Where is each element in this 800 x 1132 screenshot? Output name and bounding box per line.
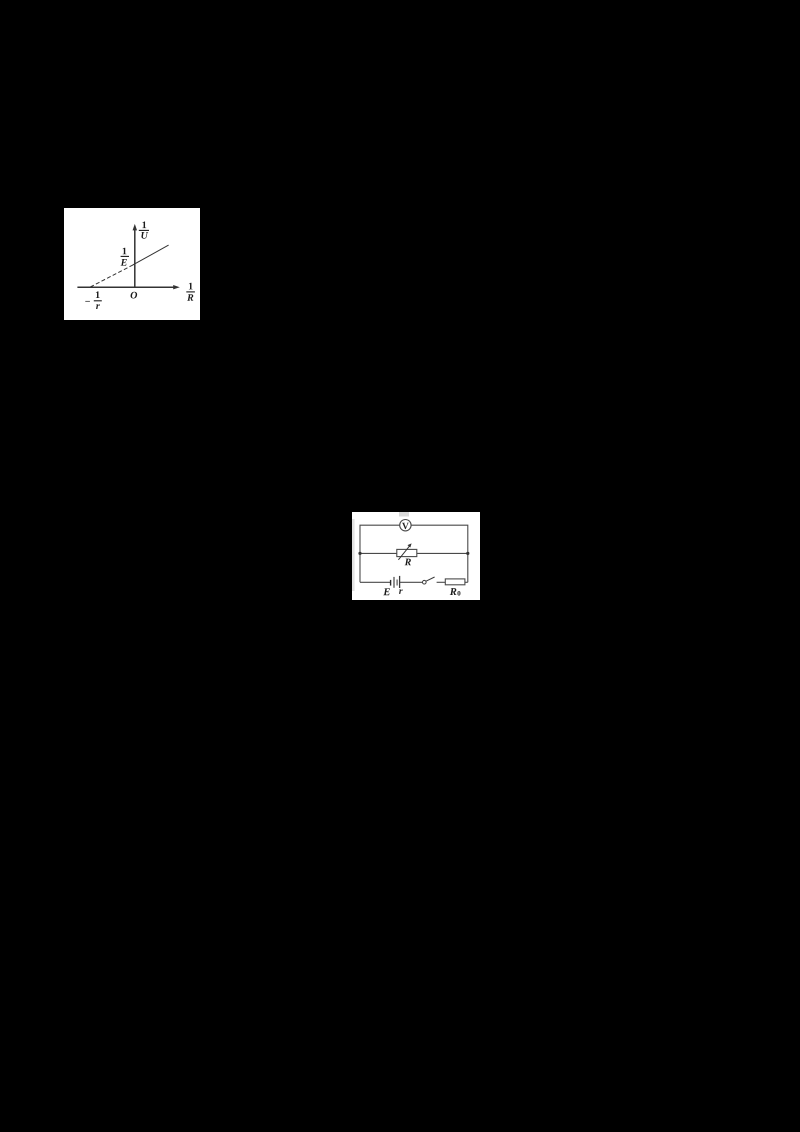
x-axis (1/R axis) (77, 286, 176, 288)
wire outer loop (top + sides) (360, 525, 468, 582)
label 1/E denominator E (121, 259, 127, 266)
label 1/E numerator (123, 248, 127, 255)
faint scan artifact top patch (399, 512, 409, 517)
x-axis arrowhead (173, 285, 180, 289)
label -1/r fraction bar (94, 300, 102, 302)
node dot right junction (466, 552, 469, 555)
faint scan artifact left strip (352, 519, 355, 591)
resistor R0 box (445, 579, 465, 585)
label 1/U fraction bar (139, 229, 149, 231)
switch S lever (426, 577, 435, 581)
rheostat R box (397, 549, 417, 556)
label O origin (131, 292, 138, 299)
label r (399, 589, 403, 593)
label 1/U denominator U (141, 232, 148, 239)
battery plate 1 (short) (390, 580, 392, 586)
wire switch to R0 (437, 581, 446, 583)
node dot left junction (358, 552, 361, 555)
label R0 subscript 0 (457, 591, 460, 596)
figure 1: 1/U vs 1/R graph (64, 208, 200, 320)
battery plate 3 (short) (396, 580, 398, 586)
label 1/R fraction bar (186, 291, 195, 293)
wire middle branch (360, 552, 468, 554)
switch S pivot circle (423, 580, 427, 584)
battery plate 2 (long) (393, 577, 395, 588)
rheostat arrow shaft (398, 545, 410, 559)
label -1/r numerator (96, 291, 100, 298)
wire R0 to right corner (465, 581, 468, 583)
y-axis arrowhead (133, 224, 138, 231)
label 1/E fraction bar (121, 255, 129, 257)
solid plot line (133, 245, 169, 265)
label 1/R numerator (189, 283, 193, 290)
wire battery to switch (400, 581, 423, 583)
label R (405, 559, 411, 566)
label minus sign of -1/r (85, 300, 90, 303)
figure 2: circuit with voltmeter V, rheostat R, battery E r, switch, resistor R0 (352, 512, 480, 600)
label -1/r denominator r (96, 304, 100, 309)
label R0 letter R (450, 588, 457, 595)
voltmeter letter V (402, 523, 409, 529)
wire bottom-left to battery (360, 581, 390, 583)
label 1/R denominator R (187, 294, 193, 301)
y-axis (1/U axis) (134, 227, 136, 288)
dashed plot line (90, 265, 133, 287)
voltmeter U1 circle (400, 520, 411, 531)
label 1/U numerator (143, 221, 147, 228)
battery plate 4 (long) (399, 576, 401, 588)
rheostat arrowhead (407, 543, 411, 547)
label E (383, 588, 390, 595)
